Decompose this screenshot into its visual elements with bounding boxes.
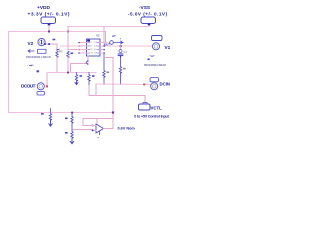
resistor R9 <box>103 54 109 85</box>
svg-text:V+: V+ <box>90 42 92 44</box>
wire -VSS horizontal rail <box>68 26 149 28</box>
wire op-amp feedback loop <box>83 119 113 126</box>
wire left vertical bus <box>8 32 10 113</box>
wire +VDD rail corner down <box>105 32 107 43</box>
junction DCIN wire <box>143 83 145 85</box>
wire -VSS drop <box>148 26 150 27</box>
wire +VDD horizontal rail <box>9 31 106 33</box>
resistor R6 <box>65 114 73 130</box>
svg-text:CM: CM <box>94 53 97 55</box>
wire op-amp output <box>104 128 114 130</box>
wire divider tap to op-amp input <box>72 130 93 131</box>
voltage source V2 (piecewise linear) <box>26 38 51 72</box>
svg-text:+: + <box>120 37 122 41</box>
node -VSS label -5.0V (+/- 0.1V) <box>128 5 167 17</box>
wire -VSS to IC supply pin <box>68 27 79 50</box>
wire mid rail <box>47 72 96 74</box>
svg-text:+VDD: +VDD <box>37 5 50 11</box>
op-amp U2 <box>92 124 104 140</box>
resistor R4 to ground <box>75 73 82 83</box>
junction V1 feed / C1 <box>120 45 122 47</box>
wire R5 to VCTL terminal <box>89 86 145 105</box>
resistor R1 <box>67 51 73 73</box>
svg-text:DCOUT: DCOUT <box>21 84 36 89</box>
node +VDD label +3.3V (+/- 0.1V) <box>28 5 70 18</box>
svg-text:-VSS: -VSS <box>139 5 151 11</box>
resistor R8 <box>41 109 52 122</box>
op-amp IC U1 <box>78 35 107 57</box>
svg-text:0.6V Nom: 0.6V Nom <box>118 126 136 130</box>
svg-text:+▬╸: +▬╸ <box>150 55 156 58</box>
junction mid rail R1 <box>67 72 69 74</box>
output pin arrow OUT <box>104 34 123 47</box>
terminal jumper J2 (-VSS) <box>141 17 156 26</box>
svg-text:←▬▷: ←▬▷ <box>27 63 35 67</box>
junction bottom rail end <box>112 111 114 113</box>
wire V1 feed <box>107 45 152 47</box>
junction rail to IC feed <box>67 31 69 33</box>
terminal VCTL (0 to +5V control input) <box>134 103 169 119</box>
svg-text:▬╸: ▬╸ <box>57 48 61 51</box>
resistor R10 <box>119 57 125 84</box>
wire node left drop <box>95 84 97 96</box>
junction bottom rail R6 <box>71 112 73 114</box>
resistor R7 <box>65 130 73 140</box>
junction +VDD rail <box>48 31 50 33</box>
resistor R2 (series with V2) <box>56 50 63 73</box>
resistor R5 <box>88 73 95 86</box>
terminal jumper J1 (+VDD) <box>41 17 56 26</box>
wire bottom rail <box>9 112 114 114</box>
svg-text:DCIN: DCIN <box>160 82 171 87</box>
ground arrow below R4 <box>75 82 78 85</box>
svg-text:PIECEWISE LINEAR: PIECEWISE LINEAR <box>144 63 166 67</box>
meter DCOUT <box>21 83 48 95</box>
voltage source V1 (piecewise linear) <box>144 36 171 67</box>
ground arrow below R7 <box>70 139 73 144</box>
svg-text:C1: C1 <box>124 50 128 54</box>
svg-text:-5.0V (+/- 0.1V): -5.0V (+/- 0.1V) <box>128 12 167 17</box>
wire +VDD drop <box>48 26 50 32</box>
svg-text:V2: V2 <box>28 41 34 46</box>
capacitor C1 <box>118 46 127 57</box>
svg-text:▬╸: ▬╸ <box>112 34 116 38</box>
svg-text:VCTL: VCTL <box>151 106 163 111</box>
svg-text:0 to +5V Control Input: 0 to +5V Control Input <box>134 114 169 118</box>
wire node center drop to op-amp output <box>104 58 113 129</box>
svg-text:PIECEWISE LINEAR: PIECEWISE LINEAR <box>26 55 51 59</box>
wire IC ground pin to mid rail <box>71 56 89 73</box>
wire -VSS drop to output node <box>103 27 105 47</box>
wire DCOUT feeder <box>46 73 48 86</box>
ground arrow below R8 <box>49 121 52 126</box>
wire IC input feed <box>61 45 80 47</box>
meter DCIN <box>150 78 170 90</box>
node label IN tick <box>53 39 61 51</box>
wire V2 output to divider node <box>44 43 57 51</box>
svg-text:V1: V1 <box>165 45 171 50</box>
wire feedback node rail <box>96 83 150 86</box>
